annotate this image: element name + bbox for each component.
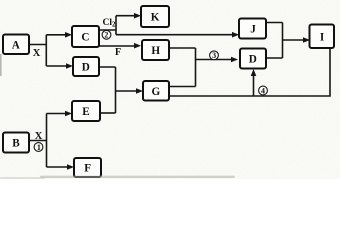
box F: [74, 158, 101, 177]
wire merge to I with arrow: [283, 37, 311, 43]
label F (on C to H wire): [115, 47, 121, 58]
wire to K with arrow: [116, 13, 141, 19]
box D2: [240, 49, 266, 69]
box K: [141, 6, 169, 27]
wire A-branch vertical: [45, 35, 47, 66]
wire branch to F with arrow: [47, 164, 75, 170]
label circled 4: [259, 86, 268, 95]
wire J to vertical: [266, 22, 283, 24]
svg-text:D: D: [82, 62, 90, 74]
svg-text:C: C: [81, 32, 89, 44]
label Cl2: [103, 18, 117, 29]
svg-text:B: B: [12, 138, 20, 150]
svg-text:X: X: [33, 48, 41, 59]
box I: [310, 25, 335, 49]
wire H/G merge vertical: [195, 48, 197, 87]
svg-text:1: 1: [37, 143, 41, 152]
wire junction vertical to K level: [115, 16, 117, 35]
wire H to vertical: [169, 47, 196, 49]
svg-text:A: A: [12, 39, 20, 51]
wire G top output to vertical: [169, 86, 196, 88]
wire branch up to D2 bottom with arrow (4): [251, 69, 257, 96]
wire D2 to vertical: [266, 57, 283, 59]
box A: [3, 35, 29, 55]
wire J/D2 merge vertical: [282, 23, 284, 59]
wire branch to C with arrow: [46, 32, 72, 38]
box H: [142, 40, 169, 60]
wire branch to E with arrow: [47, 111, 73, 117]
svg-text:E: E: [82, 106, 89, 118]
wire B-branch vertical: [46, 114, 48, 168]
box D1: [73, 57, 99, 76]
svg-text:D: D: [249, 54, 257, 66]
wire A to branch: [29, 44, 47, 46]
svg-text:H: H: [151, 45, 160, 57]
box C: [72, 26, 99, 47]
box J: [239, 19, 266, 39]
label circled 2: [102, 30, 111, 39]
wire branch to D1 with arrow: [46, 63, 73, 69]
wire C to H labeled F with arrow: [99, 43, 141, 49]
svg-text:J: J: [250, 24, 256, 36]
wire C to junction: [99, 29, 116, 31]
svg-text:K: K: [151, 12, 160, 24]
wire vertical D1/E merge: [115, 67, 117, 113]
label circled 3: [210, 51, 219, 60]
wire merge to G with arrow: [116, 88, 144, 94]
svg-text:X: X: [35, 131, 43, 142]
wire E to vertical: [100, 112, 116, 114]
wire G bottom long line to I: [169, 49, 330, 97]
wire B to branch: [29, 140, 47, 142]
box B: [3, 133, 29, 153]
wire merge to D2 with arrow (3): [196, 57, 239, 63]
svg-text:F: F: [115, 47, 121, 58]
svg-text:3: 3: [212, 51, 216, 60]
svg-text:F: F: [84, 163, 91, 175]
scan smudge left edge: [0, 54, 2, 76]
paper background: [0, 0, 340, 179]
label circled 1: [34, 143, 43, 152]
box G: [143, 81, 169, 101]
wire D1 to vertical: [99, 66, 116, 68]
label X (A branch): [33, 48, 41, 59]
scan smudge bottom: [0, 176, 235, 179]
label X (B branch): [35, 131, 43, 142]
svg-text:2: 2: [104, 31, 108, 40]
svg-text:G: G: [152, 86, 161, 98]
wire long line to J with arrow: [116, 32, 239, 38]
svg-text:4: 4: [261, 86, 265, 95]
svg-text:I: I: [320, 31, 324, 43]
box E: [72, 101, 100, 121]
